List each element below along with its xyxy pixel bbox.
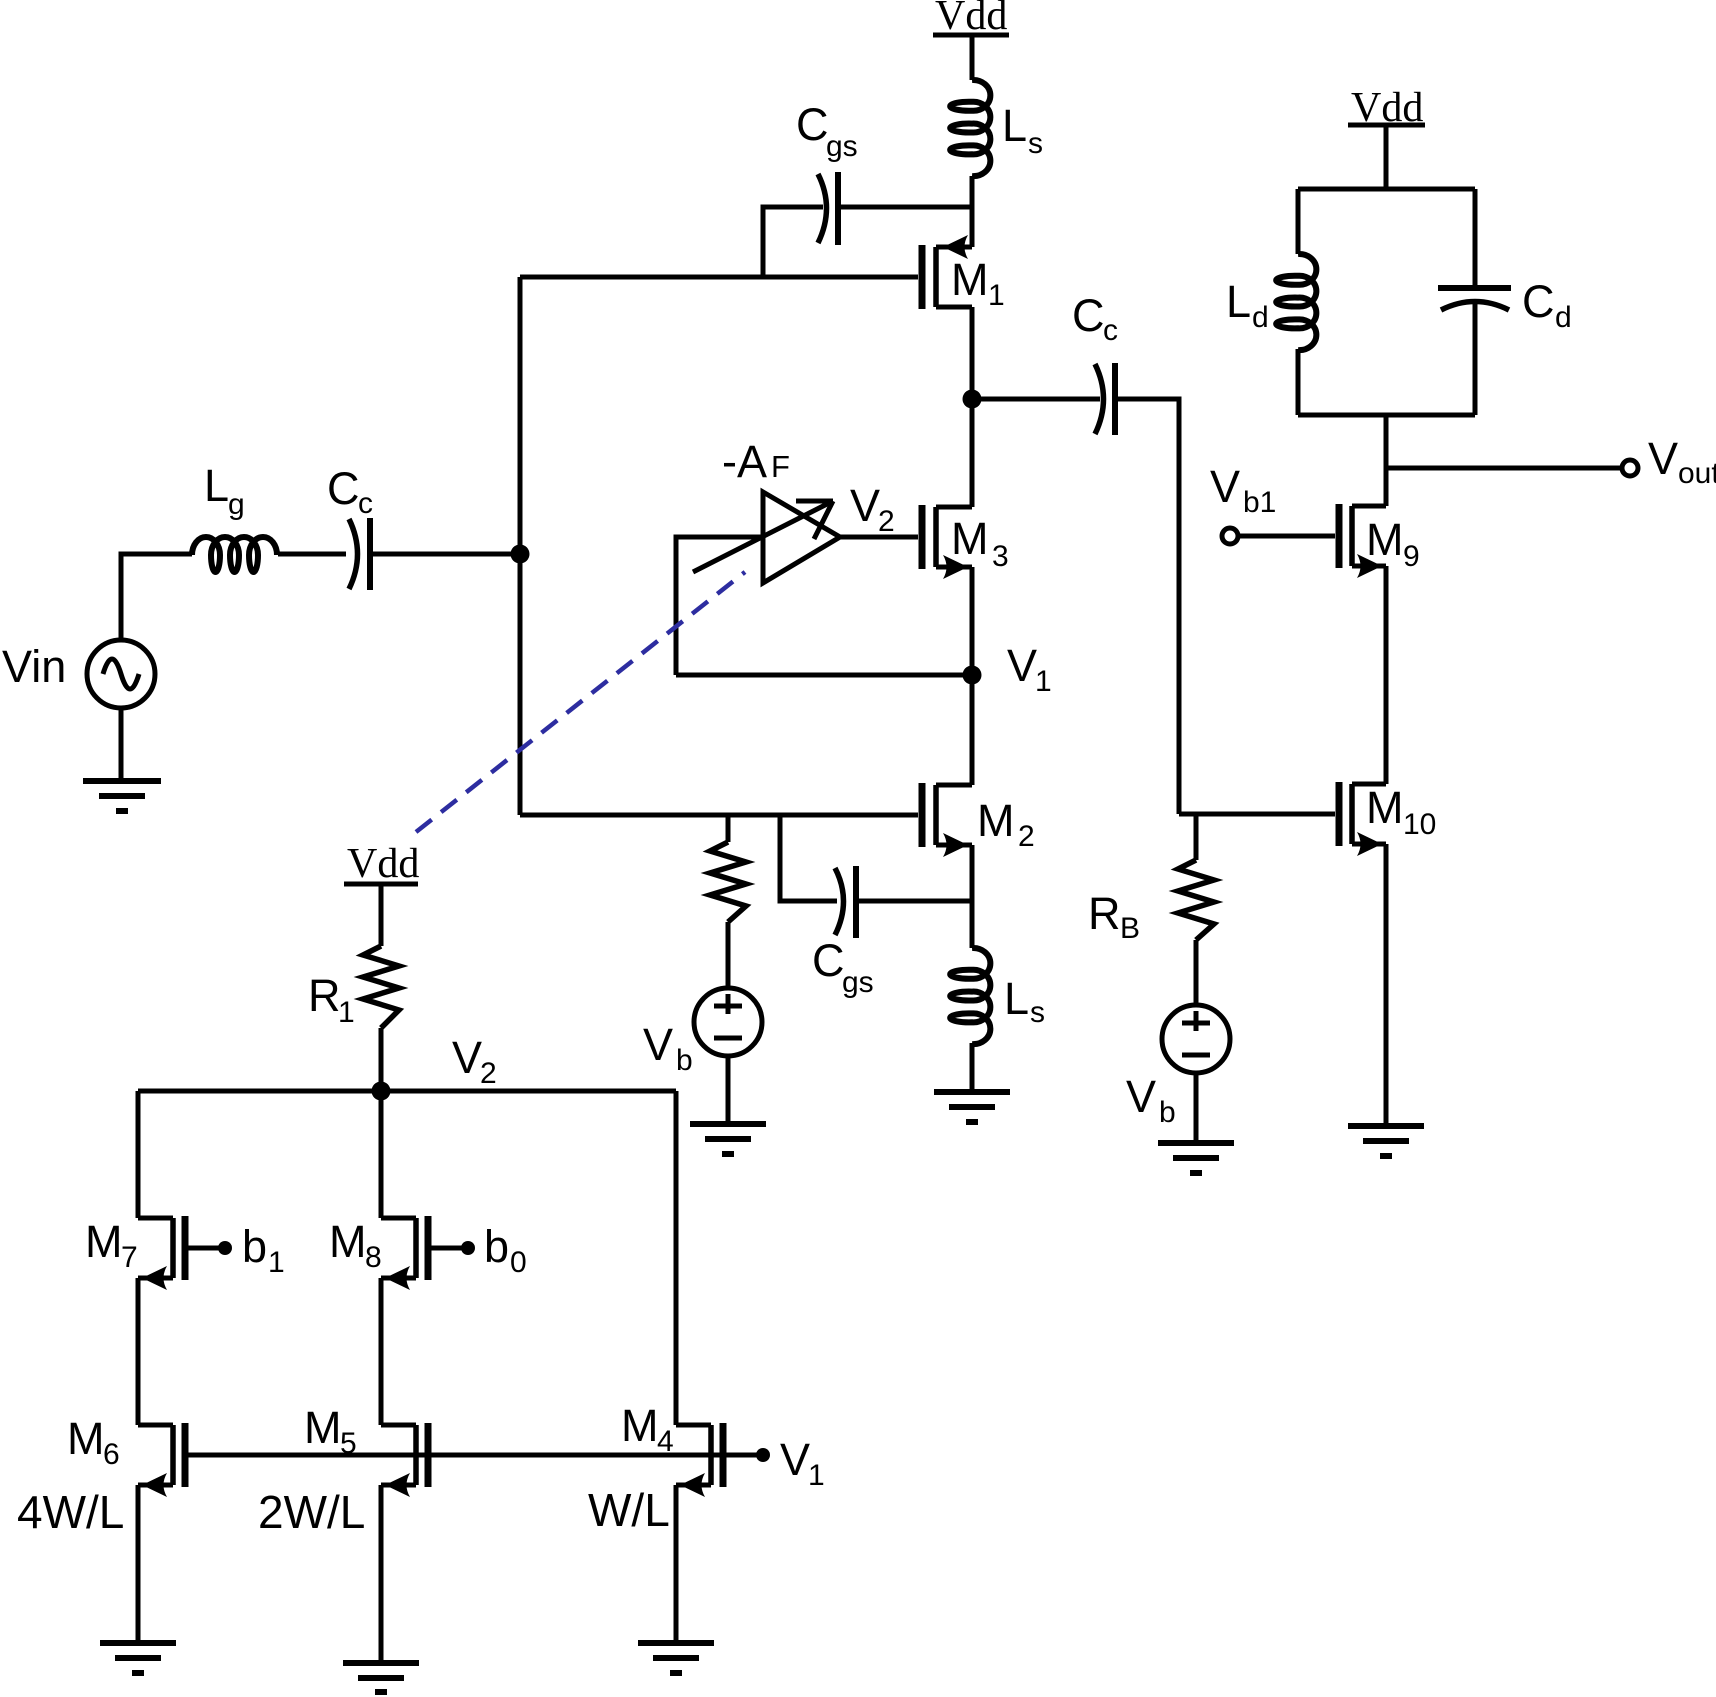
ground (Vb left) — [690, 1124, 766, 1154]
svg-text:1: 1 — [988, 279, 1005, 312]
svg-text:M: M — [977, 795, 1015, 846]
svg-text:Vdd: Vdd — [347, 841, 419, 887]
svg-text:L: L — [1226, 276, 1251, 327]
ground (Ls bottom) — [934, 1092, 1010, 1122]
transistor M1 — [922, 235, 972, 309]
node V2 — [372, 1082, 391, 1101]
wire tank to M9 — [1384, 415, 1389, 506]
wire common gate rail — [185, 1453, 757, 1458]
terminal Vb1 — [1222, 528, 1238, 544]
svg-text:0: 0 — [510, 1246, 527, 1279]
svg-text:M: M — [1366, 514, 1404, 565]
svg-text:g: g — [228, 488, 245, 521]
wire tank right lower — [1473, 302, 1478, 415]
svg-text:M: M — [951, 513, 989, 564]
capacitor Cc (mid) — [1095, 363, 1115, 435]
svg-text:6: 6 — [103, 1438, 120, 1471]
svg-text:b: b — [676, 1044, 693, 1077]
svg-text:C: C — [327, 463, 360, 514]
svg-text:8: 8 — [365, 1241, 382, 1274]
terminal V1 (gates) — [756, 1448, 770, 1462]
wire Lg to Cc — [278, 552, 346, 557]
svg-text:Vin: Vin — [2, 641, 66, 692]
wire V2 node down — [379, 1091, 384, 1218]
transistor M10 — [1339, 782, 1386, 856]
wire M8 gate — [428, 1246, 462, 1251]
blue dashed control line — [416, 572, 745, 832]
wire Vin bottom — [119, 708, 124, 781]
svg-text:L: L — [1002, 100, 1027, 151]
svg-text:b1: b1 — [1243, 486, 1276, 519]
svg-text:M: M — [304, 1402, 342, 1453]
svg-text:M: M — [621, 1400, 659, 1451]
wire M2 gate — [520, 813, 918, 818]
wire V2 rail right down — [674, 1091, 679, 1425]
wire M3 source to V1 node — [970, 567, 975, 675]
svg-text:2: 2 — [480, 1057, 497, 1090]
terminal Vout — [1622, 460, 1638, 476]
power Vdd (bottom) — [344, 841, 419, 946]
ground (M6) — [100, 1643, 176, 1673]
wire input node down — [518, 554, 523, 815]
terminal b0 — [461, 1241, 475, 1255]
svg-text:M: M — [329, 1216, 367, 1267]
wire Cgs1 to M1 source node — [838, 205, 972, 210]
wire Ls to M1 — [970, 176, 975, 247]
svg-text:C: C — [1522, 276, 1555, 327]
terminal b1 — [218, 1241, 232, 1255]
wire amp input loop — [676, 537, 763, 675]
svg-text:V: V — [780, 1434, 810, 1485]
svg-text:out: out — [1678, 457, 1716, 490]
svg-text:M: M — [67, 1413, 105, 1464]
transistor M2 — [922, 783, 972, 857]
svg-text:V: V — [1007, 640, 1037, 691]
wire Vb branch stub — [726, 815, 731, 842]
svg-text:s: s — [1028, 127, 1043, 160]
voltage source Vb (left) — [694, 988, 762, 1056]
wire M7 gate — [185, 1246, 219, 1251]
ground (M10) — [1348, 1126, 1424, 1156]
wire tank bottom — [1298, 413, 1475, 418]
capacitor Cgs (bottom) — [835, 866, 856, 938]
ground (M4) — [638, 1643, 714, 1673]
svg-text:4W/L: 4W/L — [17, 1486, 124, 1538]
wire node to Cc (mid) — [972, 397, 1100, 402]
wire M5 source down — [379, 1485, 384, 1663]
capacitor Cgs (top) — [818, 172, 838, 245]
node input — [511, 545, 530, 564]
svg-text:9: 9 — [1403, 540, 1420, 573]
transistor M8 — [381, 1216, 428, 1290]
svg-text:gs: gs — [842, 966, 874, 999]
svg-text:C: C — [812, 935, 845, 986]
svg-text:L: L — [204, 460, 229, 511]
node V1 — [963, 666, 982, 685]
svg-text:d: d — [1555, 301, 1572, 334]
inductor Ls (bottom) — [950, 948, 990, 1044]
wire M10 gate row — [1179, 812, 1335, 817]
svg-text:1: 1 — [1035, 665, 1052, 698]
svg-text:2W/L: 2W/L — [258, 1486, 365, 1538]
ground (Vin) — [83, 781, 161, 811]
svg-text:F: F — [771, 449, 790, 484]
transistor M7 — [138, 1216, 185, 1290]
svg-text:10: 10 — [1403, 808, 1436, 841]
svg-text:3: 3 — [992, 540, 1009, 573]
resistor R1 — [363, 946, 399, 1028]
inductor Ld — [1276, 254, 1316, 350]
svg-text:M: M — [1366, 782, 1404, 833]
svg-text:R: R — [308, 970, 341, 1021]
svg-text:1: 1 — [808, 1459, 825, 1492]
transistor M6 — [138, 1423, 185, 1497]
capacitor Cd — [1438, 288, 1511, 310]
svg-text:C: C — [1072, 290, 1105, 341]
svg-text:7: 7 — [121, 1241, 138, 1274]
svg-text:B: B — [1120, 912, 1140, 945]
svg-text:c: c — [1103, 314, 1118, 347]
resistor RB — [1178, 860, 1214, 940]
svg-text:-A: -A — [722, 436, 767, 487]
wire V1 node to M2 drain — [970, 675, 975, 785]
svg-text:M: M — [85, 1216, 123, 1267]
wire Cgs1 branch — [763, 207, 823, 277]
wire Cgs2 branch — [780, 815, 837, 901]
svg-text:W/L: W/L — [588, 1484, 670, 1536]
wire Vb1 to M9 gate — [1238, 534, 1335, 539]
svg-text:b: b — [484, 1221, 509, 1272]
wire Ls to ground — [970, 1043, 975, 1092]
svg-text:L: L — [1004, 973, 1029, 1024]
svg-text:s: s — [1030, 996, 1045, 1029]
transistor M4 — [676, 1423, 723, 1497]
amplifier -AF — [693, 492, 840, 583]
capacitor Cc (input) — [349, 518, 370, 590]
svg-text:2: 2 — [1018, 820, 1035, 853]
wire Cgs2 to M2 source — [856, 899, 972, 904]
svg-text:V: V — [1210, 461, 1240, 512]
wire amp output to M3 gate — [840, 535, 918, 540]
svg-text:1: 1 — [338, 996, 355, 1029]
svg-text:R: R — [1088, 888, 1121, 939]
wire node to M3 drain — [970, 399, 975, 507]
power Vdd (right) — [1348, 85, 1425, 189]
transistor M9 — [1339, 504, 1386, 578]
inductor Lg — [192, 537, 277, 572]
svg-text:b: b — [242, 1221, 267, 1272]
wire Cc to input node — [370, 552, 520, 557]
wire RB stub — [1194, 814, 1199, 860]
wire R1 to V2 node — [379, 1028, 384, 1091]
wire M9 source to M10 drain — [1384, 566, 1389, 784]
wire M2 source down — [970, 845, 975, 948]
svg-text:b: b — [1159, 1096, 1176, 1129]
wire Vb to ground — [726, 1056, 731, 1124]
wire M7 to M6 — [136, 1278, 141, 1425]
wire M1 gate — [520, 275, 918, 280]
svg-text:V: V — [452, 1032, 482, 1083]
wire V2 rail left down — [136, 1091, 141, 1218]
wire tank top — [1298, 187, 1475, 192]
svg-text:gs: gs — [826, 130, 858, 163]
wire Vb to ground — [1194, 1073, 1199, 1143]
ground (M5) — [343, 1663, 419, 1692]
node M1 drain — [963, 390, 982, 409]
svg-text:V: V — [1126, 1071, 1156, 1122]
svg-text:1: 1 — [268, 1246, 285, 1279]
inductor Ls (top) — [950, 80, 990, 176]
transistor M5 — [381, 1423, 428, 1497]
svg-text:d: d — [1252, 301, 1269, 334]
svg-text:V: V — [1648, 433, 1678, 484]
wire M1 drain to node — [970, 307, 975, 399]
wire tank right upper — [1473, 189, 1478, 285]
wire Vout — [1386, 466, 1622, 471]
wire Vin top — [121, 554, 192, 640]
wire tank left upper — [1296, 189, 1301, 254]
wire M10 source down — [1384, 844, 1389, 1126]
wire tank left lower — [1296, 349, 1301, 415]
svg-text:V: V — [850, 480, 880, 531]
wire RB to Vb source — [1194, 940, 1199, 1005]
svg-text:C: C — [796, 99, 829, 150]
wire resistor to Vb source — [726, 922, 731, 988]
voltage source Vin — [87, 640, 155, 708]
wire M8 to M5 — [379, 1278, 384, 1425]
transistor M3 — [922, 505, 972, 579]
svg-text:c: c — [358, 487, 373, 520]
svg-text:M: M — [951, 254, 989, 305]
svg-text:V: V — [643, 1019, 673, 1070]
ground (Vb right) — [1158, 1143, 1234, 1173]
power Vdd (top) — [933, 0, 1009, 80]
wire Cc (mid) to right column — [1115, 399, 1179, 814]
svg-text:2: 2 — [878, 505, 895, 538]
wire M6 source down — [136, 1485, 141, 1643]
wire M4 source down — [674, 1485, 679, 1643]
voltage source Vb (right) — [1162, 1005, 1230, 1073]
resistor (Vb bias) — [710, 842, 746, 922]
wire input node up — [518, 277, 523, 554]
wire V2 rail — [138, 1089, 676, 1094]
wire V1 row — [676, 673, 972, 678]
